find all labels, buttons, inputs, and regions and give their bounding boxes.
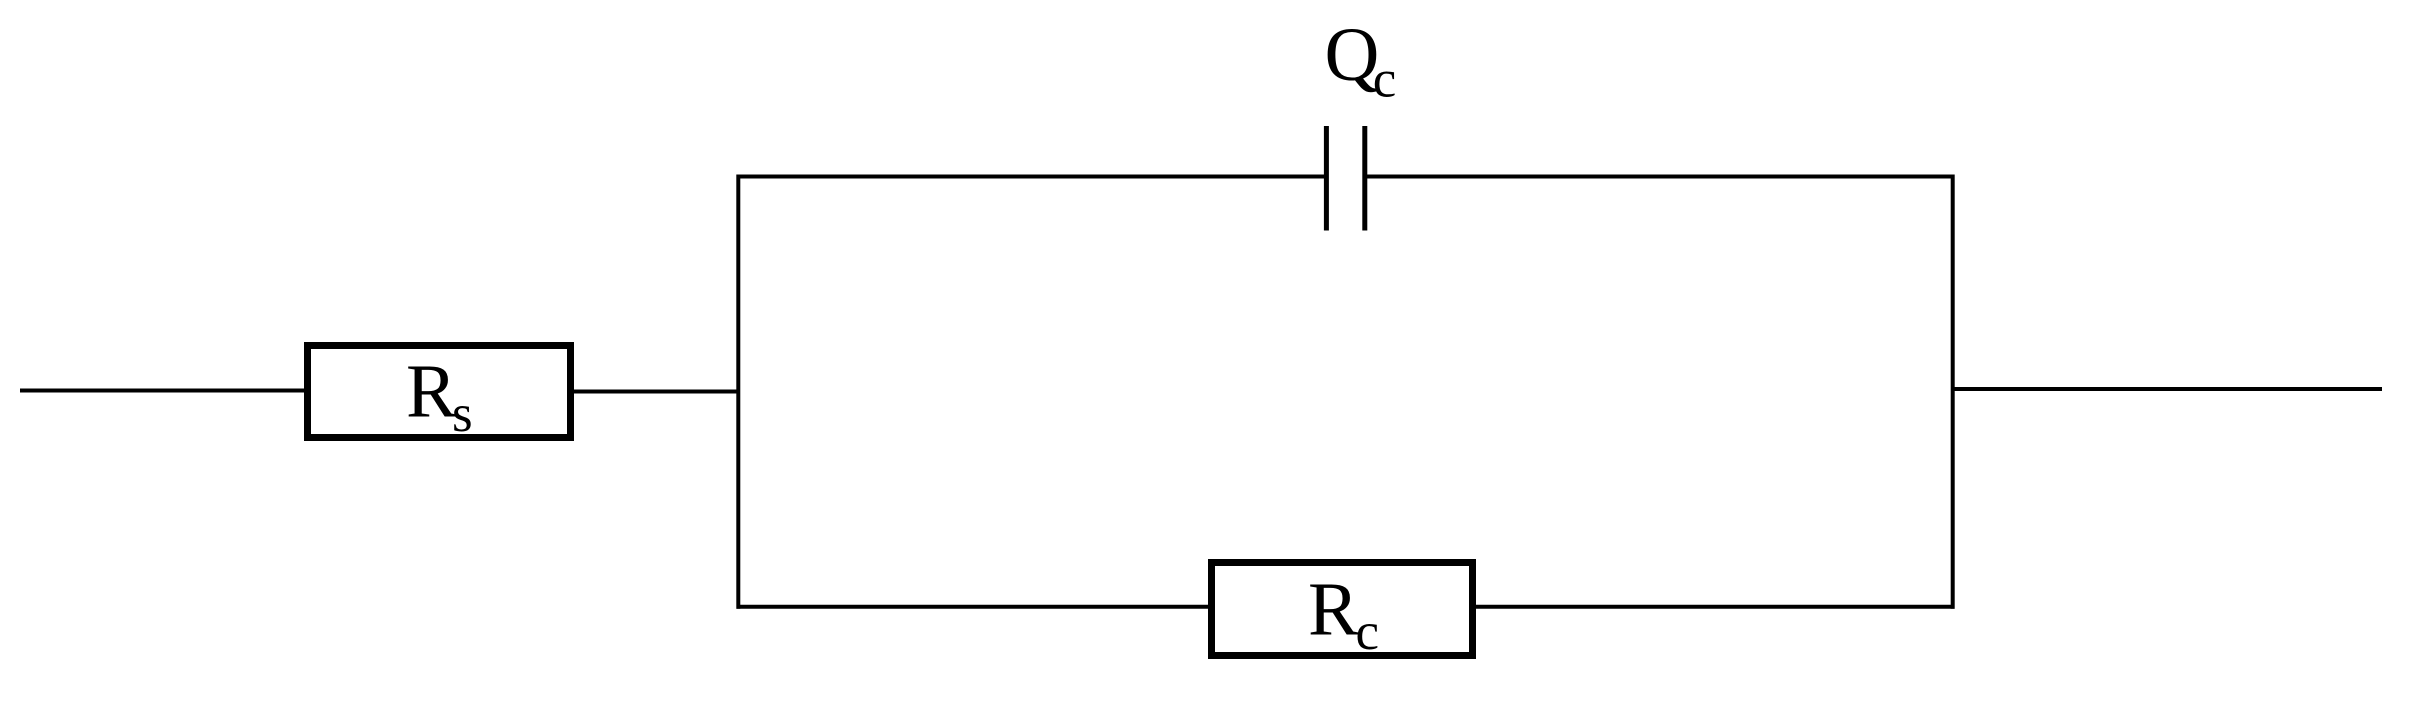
node: right junction vertical wire	[1951, 175, 1955, 609]
wire: top branch left segment	[737, 175, 1327, 179]
svg-text:c: c	[1356, 603, 1380, 661]
resistor Rs	[308, 346, 571, 438]
svg-text:R: R	[1308, 568, 1359, 652]
svg-text:Q: Q	[1325, 13, 1380, 97]
capacitor Qc right plate	[1362, 126, 1367, 231]
svg-text:R: R	[406, 350, 457, 434]
wire: bottom branch right segment	[1473, 605, 1955, 609]
wire: bottom branch left segment	[737, 605, 1212, 609]
wire: top branch right segment	[1365, 175, 1955, 179]
resistor Rc	[1212, 563, 1473, 656]
svg-text:c: c	[1373, 51, 1397, 109]
node: left junction vertical wire	[736, 175, 740, 609]
wire: right lead	[1951, 387, 2382, 391]
capacitor Qc left plate	[1324, 126, 1329, 231]
svg-text:s: s	[452, 385, 473, 443]
wire: left lead	[20, 389, 306, 393]
wire: Rs to left node	[574, 390, 740, 394]
